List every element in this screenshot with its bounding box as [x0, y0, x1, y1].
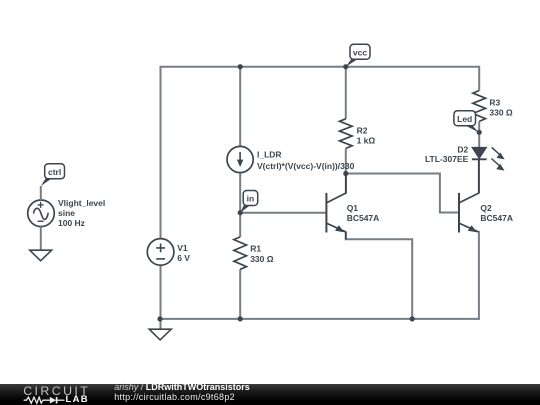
- junction: bottom rail at ground: [157, 316, 162, 321]
- svg-text:ctrl: ctrl: [48, 167, 61, 177]
- svg-text:LTL-307EE: LTL-307EE: [425, 154, 469, 164]
- svg-text:vcc: vcc: [353, 47, 367, 57]
- wire: mid node right, down and to Q2 base: [346, 174, 459, 213]
- CircuitLab logo wordmark: [23, 385, 90, 397]
- wire: Q2 emitter to bottom rail corner: [478, 232, 480, 319]
- wire: R1 bottom to bottom rail: [239, 269, 241, 319]
- svg-text:D2: D2: [457, 145, 468, 155]
- net label ctrl: [41, 164, 65, 186]
- value label Vlight_level sine 100 Hz: [58, 198, 105, 228]
- svg-text:R3: R3: [489, 98, 500, 108]
- svg-text:V(ctrl)*(V(vcc)-V(in))/330: V(ctrl)*(V(vcc)-V(in))/330: [257, 161, 355, 171]
- ground (below Vlight_level): [30, 250, 52, 261]
- value label R3 330 ohm: [489, 98, 513, 118]
- value label I_LDR expression: [257, 150, 355, 171]
- wire: Vlight_level bottom to ground: [40, 227, 42, 251]
- svg-text:1 kΩ: 1 kΩ: [357, 136, 376, 146]
- svg-text:Led: Led: [457, 114, 472, 124]
- svg-text:Vlight_level: Vlight_level: [58, 198, 105, 208]
- LED D2: [472, 147, 505, 170]
- wire: R2 bottom to mid node: [345, 148, 347, 173]
- net label in: [240, 191, 258, 213]
- junction: R2 bottom / Q1 collector / Q2 base run: [343, 171, 348, 176]
- value label V1 6 V: [177, 243, 190, 263]
- net label Led: [454, 111, 479, 133]
- value label D2 LTL-307EE: [425, 145, 469, 165]
- svg-text:6 V: 6 V: [177, 253, 190, 263]
- transistor Q2: [459, 159, 479, 232]
- wire: left rail, top rail and R3 top lead: [161, 67, 480, 239]
- CircuitLab logo icon (resistor + diode) and LAB: [23, 396, 69, 405]
- wire: node in to R1 top: [239, 213, 241, 237]
- wire: top rail to I_LDR top: [239, 67, 241, 147]
- net label vcc: [346, 44, 370, 66]
- svg-text:R1: R1: [250, 244, 261, 254]
- wire: R3 bottom to Led node: [478, 121, 480, 131]
- footer url text: [114, 393, 235, 402]
- svg-text:I_LDR: I_LDR: [257, 150, 282, 160]
- value label Q1 BC547A: [347, 203, 380, 223]
- svg-text:Q1: Q1: [347, 203, 359, 213]
- wire: Led node to D2 anode: [478, 131, 480, 147]
- wire: Q1 emitter run to bottom rail: [346, 238, 412, 319]
- junction: vcc node: [343, 64, 348, 69]
- transistor Q1: [326, 174, 346, 240]
- footer title text: [114, 383, 250, 392]
- value label R1 330 ohm: [250, 244, 274, 264]
- svg-text:100 Hz: 100 Hz: [58, 218, 85, 228]
- junction: bottom rail at Q1 emitter: [410, 316, 415, 321]
- svg-text:R2: R2: [357, 126, 368, 136]
- svg-text:BC547A: BC547A: [480, 213, 513, 223]
- resistor R2: [340, 119, 353, 149]
- voltage source V1: [147, 239, 174, 266]
- value label Q2 BC547A: [480, 203, 513, 223]
- junction: Led node at D2 anode: [477, 130, 482, 135]
- resistor R3: [473, 91, 486, 122]
- svg-text:in: in: [247, 194, 255, 204]
- wire: vcc node to R2 top: [345, 67, 347, 119]
- junction: bottom rail at R1: [238, 316, 243, 321]
- svg-text:330 Ω: 330 Ω: [489, 108, 513, 118]
- svg-text:sine: sine: [58, 208, 75, 218]
- wire: bottom rail and ground stub: [161, 319, 479, 329]
- wire: I_LDR bottom to node in: [239, 173, 241, 213]
- ground (main, below bottom rail): [149, 329, 171, 340]
- value label R2 1 kOhm: [357, 126, 376, 146]
- resistor R1: [234, 237, 247, 269]
- voltage source Vlight_level (sine): [28, 200, 55, 227]
- svg-text:BC547A: BC547A: [347, 213, 380, 223]
- svg-text:330 Ω: 330 Ω: [250, 254, 274, 264]
- svg-text:Q2: Q2: [480, 203, 492, 213]
- current source I_LDR: [227, 146, 253, 172]
- wire: ctrl label stub to Vlight_level top: [40, 186, 42, 200]
- wire: node in to Q1 base: [240, 212, 326, 214]
- footer bar: [0, 384, 540, 405]
- wire: V1 bottom to bottom rail: [160, 265, 162, 319]
- junction: node in: [238, 210, 243, 215]
- svg-text:V1: V1: [177, 243, 188, 253]
- junction: top rail / I_LDR: [238, 64, 243, 69]
